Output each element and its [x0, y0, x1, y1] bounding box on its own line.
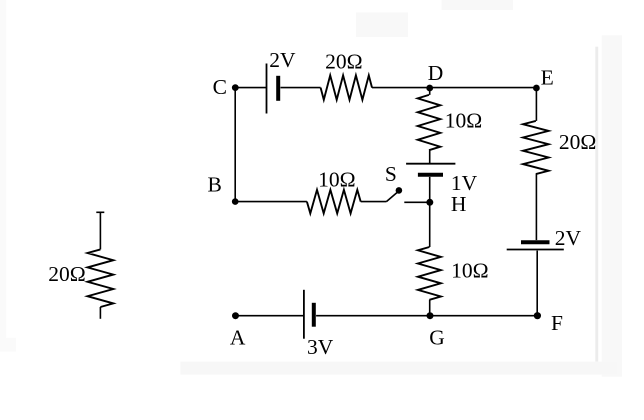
svg-text:20Ω: 20Ω — [325, 50, 362, 74]
svg-text:D: D — [428, 61, 444, 85]
svg-text:H: H — [451, 192, 467, 216]
svg-text:20Ω: 20Ω — [559, 130, 596, 154]
svg-text:20Ω: 20Ω — [48, 262, 85, 286]
svg-text:S: S — [385, 162, 397, 186]
svg-text:B: B — [208, 173, 222, 197]
svg-text:E: E — [541, 65, 554, 89]
svg-text:10Ω: 10Ω — [451, 259, 488, 283]
svg-text:10Ω: 10Ω — [445, 108, 482, 132]
svg-text:2V: 2V — [269, 48, 296, 72]
svg-text:F: F — [551, 311, 563, 335]
svg-text:3V: 3V — [307, 335, 334, 359]
svg-text:C: C — [213, 75, 227, 99]
svg-text:1V: 1V — [451, 171, 478, 195]
svg-text:A: A — [230, 326, 246, 350]
svg-text:10Ω: 10Ω — [318, 168, 355, 192]
svg-text:G: G — [429, 326, 445, 350]
svg-text:2V: 2V — [555, 226, 582, 250]
